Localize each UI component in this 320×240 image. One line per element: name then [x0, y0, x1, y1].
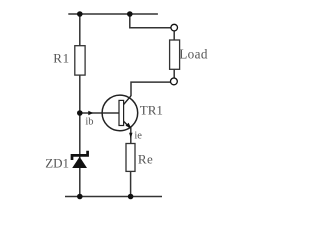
wire bottom ground rail — [65, 196, 162, 198]
svg-text:Re: Re — [138, 151, 153, 166]
arrow ie on emitter wire — [129, 133, 132, 139]
svg-text:TR1: TR1 — [140, 102, 163, 117]
svg-text:ib: ib — [85, 117, 93, 128]
zener diode ZD1 cathode bar — [72, 151, 88, 160]
zener diode ZD1 anode triangle — [72, 157, 87, 168]
terminal top (open circle) — [171, 24, 178, 31]
svg-text:R1: R1 — [53, 50, 70, 65]
wire top supply rail — [68, 13, 158, 15]
wire Re bottom lead — [130, 171, 132, 196]
node junction dot left on rail — [77, 11, 83, 17]
wire R1 top lead — [79, 14, 81, 46]
arrow ib on base wire — [88, 111, 93, 116]
svg-text:ie: ie — [134, 130, 142, 141]
node junction dot right on rail — [127, 11, 133, 17]
wire load branch from rail — [130, 14, 171, 28]
wire collector to load — [131, 82, 171, 96]
resistor Re — [126, 144, 135, 172]
svg-text:Load: Load — [179, 46, 208, 61]
node junction dot ground left — [77, 194, 83, 200]
resistor R1 — [75, 46, 85, 75]
svg-text:ZD1: ZD1 — [45, 155, 69, 170]
node junction dot ground right — [128, 194, 134, 200]
transistor TR1 — [102, 95, 138, 131]
resistor Load — [170, 40, 180, 69]
wire load bottom lead — [173, 69, 175, 78]
node junction dot base — [77, 110, 83, 116]
terminal bottom (open circle) — [171, 78, 178, 85]
wire load top lead — [173, 31, 175, 40]
wire emitter lead — [130, 127, 132, 143]
wire base lead — [80, 112, 119, 114]
wire left column (base node to zener and ground) — [79, 75, 81, 196]
